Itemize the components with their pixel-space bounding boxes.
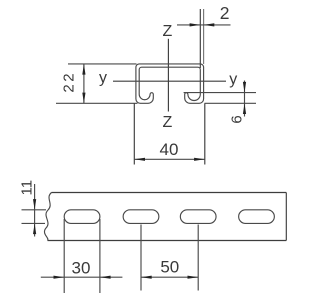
arrow left of 40-dim (134, 158, 145, 161)
slot 1 (64, 210, 100, 224)
extension line top for 11 (22, 209, 47, 211)
arrow right of 40-dim (194, 158, 205, 161)
strip bottom edge (48, 240, 287, 242)
dimension line for 50 (141, 276, 198, 278)
arrow down at top of 6-dim (243, 82, 246, 93)
svg-text:11: 11 (18, 180, 35, 196)
wire: thickness extension line outer (x=203.6) (203, 9, 205, 64)
extension line top for 22 (68, 63, 137, 65)
extension line right for 40 (204, 103, 206, 164)
arrow up at top of 22-dim (82, 64, 85, 75)
svg-text:22: 22 (60, 71, 77, 93)
svg-text:y: y (99, 69, 107, 86)
dimension line for 40 (134, 158, 205, 160)
strip right edge (285, 193, 287, 241)
extension line right for 50 (197, 225, 199, 291)
centerline y axis (113, 80, 226, 82)
break line (44, 193, 51, 241)
svg-text:40: 40 (160, 140, 179, 159)
extension line left for 30 (63, 219, 65, 293)
arrow down at top of 11-dim (33, 199, 36, 210)
extension line bottom for 22 (56, 102, 138, 104)
centerline Z axis (167, 39, 169, 112)
arrow outside-right of 30-dim pointing left (100, 276, 111, 279)
extension line right for 30 (99, 219, 101, 293)
wire: thickness extension line inner (x=200.3) (199, 9, 201, 68)
dimension line for 30 (41, 276, 123, 278)
extension line bottom for 6 (205, 102, 257, 104)
arrow up at bottom of 6-dim (243, 103, 246, 114)
svg-text:2: 2 (220, 3, 230, 23)
dimension line for 11 (34, 184, 36, 237)
extension line bottom for 11 (22, 222, 46, 224)
extension line left for 40 (133, 103, 135, 164)
strip top edge (52, 192, 287, 194)
slot 2 (123, 210, 159, 224)
arrow right of 2-dim pointing left (204, 23, 215, 26)
slot 4 (239, 210, 275, 224)
wire: dimension line for 2 (177, 24, 231, 26)
arrow up at bottom of 11-dim (33, 223, 36, 234)
svg-text:y: y (229, 71, 237, 88)
arrow right of 50-dim pointing right (188, 276, 199, 279)
slot 3 (180, 210, 216, 224)
arrow left of 2-dim pointing right (190, 23, 201, 26)
channel profile outline (136, 64, 204, 103)
arrow outside-left of 30-dim pointing right (54, 276, 65, 279)
svg-text:6: 6 (229, 115, 246, 123)
arrow left of 50-dim pointing left (141, 276, 152, 279)
svg-text:Z: Z (163, 23, 173, 40)
arrow down at bottom of 22-dim (82, 93, 85, 104)
extension line left for 50 (140, 225, 142, 291)
svg-text:Z: Z (163, 114, 173, 131)
extension line top for 6 (184, 92, 256, 94)
svg-text:50: 50 (160, 257, 179, 276)
svg-text:30: 30 (72, 259, 91, 278)
dimension line for 22 (83, 64, 85, 103)
dimension line for 6 (244, 81, 246, 117)
